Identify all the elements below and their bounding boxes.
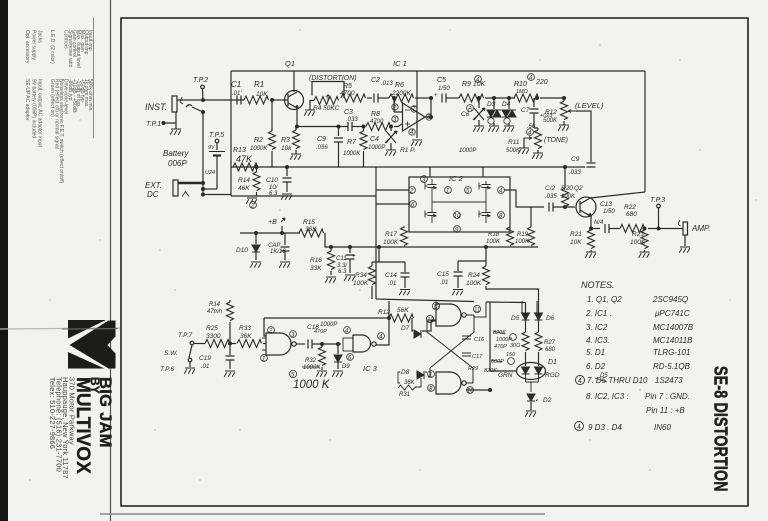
svg-text:2. IC1 .: 2. IC1 . [585, 309, 612, 318]
svg-text:R13: R13 [233, 147, 246, 154]
node junction input [202, 99, 205, 102]
svg-text:T.P.6: T.P.6 [160, 366, 174, 373]
svg-text:C9: C9 [571, 156, 580, 163]
wire: Q1 emitter down [297, 108, 348, 127]
svg-text:EXT.: EXT. [145, 181, 162, 190]
svg-text:Battery: Battery [163, 149, 189, 158]
svg-text:T.P.2: T.P.2 [193, 77, 208, 84]
svg-text:6.3: 6.3 [269, 191, 278, 197]
black scan strip [0, 0, 8, 521]
svg-text:100K: 100K [383, 239, 399, 246]
svg-text:R29: R29 [468, 366, 478, 372]
svg-text:DC: DC [147, 190, 159, 199]
svg-text:R12: R12 [545, 109, 557, 116]
svg-text:1. Q1, Q2: 1. Q1, Q2 [587, 295, 622, 304]
svg-text:R16: R16 [310, 257, 322, 264]
svg-text:4: 4 [578, 378, 582, 385]
IC2 internal wires [432, 179, 486, 209]
svg-text:C17: C17 [472, 354, 483, 360]
svg-text:150: 150 [506, 352, 516, 358]
svg-text:μPC741C: μPC741C [654, 309, 690, 318]
wire: Q1 collector to top [293, 71, 295, 92]
svg-text:R3: R3 [281, 137, 290, 144]
RC cluster between gates [468, 330, 520, 374]
svg-text:D10: D10 [236, 247, 248, 254]
wire: bottom return to box [203, 194, 231, 196]
svg-text:C19: C19 [199, 355, 211, 362]
transistor Q1 [285, 91, 304, 110]
svg-text:C14: C14 [385, 272, 397, 279]
wire: IC1 pin7 feed from top [416, 71, 418, 138]
wire: input line [177, 99, 241, 101]
wire: gate4 out to LED [466, 302, 517, 390]
logo piece chevron [70, 321, 116, 369]
wire: rail B to D5 [486, 302, 526, 313]
svg-text:500K: 500K [543, 118, 558, 124]
svg-text:D1: D1 [548, 359, 557, 366]
SECTION: logo + address [48, 320, 118, 479]
test point T.P.3 [657, 204, 661, 208]
svg-text:7. D5 THRU D10: 7. D5 THRU D10 [587, 376, 648, 385]
SECTION: spec table (rotated) [24, 30, 93, 184]
wire: Q2 emitter to output [591, 216, 600, 229]
svg-text:220: 220 [535, 79, 548, 86]
svg-text:3300: 3300 [206, 333, 221, 340]
svg-text:R32: R32 [305, 358, 317, 364]
svg-text:47K: 47K [236, 154, 253, 164]
svg-text:GRN: GRN [498, 372, 513, 379]
svg-text:.033: .033 [569, 170, 581, 176]
IC2 pin 6 [410, 201, 417, 208]
svg-text:D5: D5 [600, 373, 608, 379]
wire: box A right edge (+B feed) [644, 71, 646, 192]
svg-text:.035: .035 [545, 194, 557, 200]
svg-text:1000K: 1000K [343, 151, 361, 157]
svg-text:+: + [434, 93, 438, 99]
spec table top rule [93, 18, 95, 138]
ground op-amp pin4 [411, 140, 422, 146]
svg-text:A: A [467, 107, 472, 113]
svg-text:NOTES.: NOTES. [581, 280, 615, 290]
svg-text:56K: 56K [397, 307, 409, 314]
svg-text:13: 13 [433, 305, 440, 311]
svg-text:S.W.: S.W. [164, 350, 178, 357]
svg-text:SE-UP AC adaptor: SE-UP AC adaptor [24, 79, 30, 121]
svg-text:R14: R14 [238, 177, 250, 184]
svg-text:INST.: INST. [145, 102, 167, 112]
address lines [48, 377, 77, 479]
svg-text:2: 2 [250, 204, 255, 210]
flip-flop NAND gate IC3c [436, 304, 461, 326]
svg-text:.056: .056 [316, 145, 328, 151]
svg-text:C9: C9 [317, 136, 326, 143]
switch contact from jack sleeve [186, 105, 192, 107]
wire: +B node rail [240, 232, 300, 234]
svg-text:1MΩ: 1MΩ [516, 89, 528, 95]
svg-text:100K: 100K [486, 239, 501, 245]
svg-text:R31: R31 [399, 392, 410, 398]
svg-text:1/50: 1/50 [438, 86, 450, 92]
svg-text:R6: R6 [395, 82, 404, 89]
SECTION: notes + title [575, 280, 732, 492]
svg-text:1000K: 1000K [250, 146, 268, 152]
ground under T.P.1 [170, 129, 181, 135]
svg-text:R1 P.: R1 P. [400, 147, 416, 154]
svg-text:33K: 33K [310, 265, 322, 272]
ext dc jack [173, 180, 178, 196]
scan fold line [0, 328, 120, 329]
wire: flip-flop cross coupling [428, 315, 474, 377]
wire: R24 bottom to D6 [486, 286, 539, 313]
SECTION: schematic [145, 59, 711, 373]
svg-text:Green (effect on): Green (effect on) [49, 79, 55, 117]
wire: C15 sub-rail [458, 247, 486, 261]
svg-text:IC 2: IC 2 [449, 174, 464, 183]
FET IC2c [425, 209, 437, 223]
wire: box A left edge [230, 71, 232, 196]
svg-text:Controls: Controls [63, 30, 69, 49]
svg-text:10K: 10K [570, 239, 582, 246]
sidebar divider line [110, 0, 112, 521]
svg-text:RD-5.1QB: RD-5.1QB [653, 362, 691, 371]
svg-text:10k: 10k [281, 145, 292, 152]
NAND gate IC3b schmitt [343, 338, 353, 351]
wire: op-amp output [425, 98, 431, 117]
svg-text:R7: R7 [347, 139, 357, 146]
resistor R26 820K [522, 332, 529, 351]
wire: left riser to oscillator rail [376, 247, 474, 302]
svg-text:R34: R34 [355, 272, 367, 279]
svg-text:IN60: IN60 [654, 423, 671, 432]
svg-text:C10: C10 [266, 177, 278, 184]
circled 5 note [289, 370, 296, 377]
wire: box A bottom-left rail [231, 195, 376, 197]
wire: ext dc tip thick [178, 182, 203, 184]
svg-text:100K: 100K [353, 280, 369, 287]
svg-text:T.P.7: T.P.7 [178, 332, 192, 339]
svg-text:100K: 100K [515, 239, 530, 245]
svg-text:Power supply: Power supply [31, 30, 37, 61]
svg-text:.01: .01 [388, 281, 396, 287]
svg-text:R4 50KC: R4 50KC [313, 105, 340, 112]
IC2 pin 4 [498, 187, 505, 194]
wire: IC2 pin6 to left rail [376, 203, 409, 205]
wire: rail stubs into IC2 [430, 167, 483, 177]
svg-text:C11: C11 [336, 256, 347, 262]
logo piece top wedge [68, 320, 106, 339]
svg-text:R9 10K: R9 10K [462, 81, 486, 88]
svg-text:36K: 36K [404, 380, 416, 386]
SECTION: schematic bottom (oscillator IC3) [184, 300, 560, 417]
wire: +B rail y167 [231, 166, 585, 168]
FET IC2b [479, 181, 491, 195]
svg-text:006P: 006P [168, 159, 187, 168]
circled 4 marks [576, 376, 585, 385]
svg-text:1S2473: 1S2473 [655, 376, 683, 385]
wire: D5/R27 bottom to lower rail [522, 301, 537, 314]
svg-text:C7: C7 [521, 107, 530, 114]
svg-text:.013: .013 [381, 81, 393, 87]
svg-text:5. D1: 5. D1 [586, 348, 605, 357]
svg-text:R22: R22 [624, 204, 636, 211]
svg-text:1000P: 1000P [459, 148, 476, 154]
svg-text:8. IC2, IC3 :: 8. IC2, IC3 : [586, 392, 629, 401]
svg-text:T.P.3: T.P.3 [650, 197, 665, 204]
svg-text:+B: +B [268, 219, 277, 226]
svg-text:C5: C5 [437, 77, 446, 84]
input jack INST [172, 96, 177, 112]
test point T.P.5 [215, 139, 219, 143]
svg-text:TLRG-101: TLRG-101 [653, 348, 690, 357]
svg-text:U24: U24 [205, 170, 215, 176]
svg-text:1: 1 [262, 357, 265, 363]
outer frame [121, 18, 748, 506]
svg-text:SE-8 DISTORTION: SE-8 DISTORTION [710, 366, 731, 492]
svg-text:R33: R33 [239, 325, 251, 332]
svg-text:R15: R15 [303, 219, 315, 226]
svg-text:4. IC3.: 4. IC3. [586, 336, 610, 345]
battery B1 9V [209, 151, 225, 153]
svg-text:(LEVEL): (LEVEL) [575, 101, 604, 110]
test point T.P.2 [201, 85, 205, 89]
svg-text:C3: C3 [344, 109, 353, 116]
svg-text:680: 680 [545, 347, 556, 353]
wire: rail under IC2 [376, 246, 538, 248]
wire: IC2 pin2 to left rail [376, 189, 409, 191]
svg-text:1000P: 1000P [368, 145, 385, 151]
svg-text:46K: 46K [238, 185, 250, 192]
logo piece bottom wedge [68, 352, 105, 369]
svg-text:R2: R2 [254, 137, 263, 144]
svg-text:9V battery (006P) included: 9V battery (006P) included [31, 79, 37, 138]
svg-text:T.P.5: T.P.5 [209, 132, 224, 139]
wire: IC2 out to C12 [504, 190, 544, 207]
svg-text:C1: C1 [231, 80, 241, 89]
svg-text:C13: C13 [600, 201, 612, 208]
svg-text:C/2: C/2 [545, 185, 556, 192]
svg-text:1K/16: 1K/16 [270, 249, 286, 255]
op-amp U1 IC1 741 [403, 103, 426, 131]
svg-text:AMP.: AMP. [691, 224, 711, 233]
NAND gate IC3a [266, 333, 291, 355]
svg-text:10: 10 [454, 214, 461, 220]
svg-text:MC14011B: MC14011B [653, 336, 693, 345]
svg-text:R21: R21 [570, 231, 582, 238]
svg-text:D7: D7 [401, 325, 410, 332]
svg-text:6.3: 6.3 [338, 269, 347, 275]
FET IC2d [479, 209, 491, 223]
svg-text:C15: C15 [437, 271, 449, 278]
svg-text:Q1: Q1 [285, 59, 295, 68]
IC2 pin 8 [498, 212, 505, 219]
svg-text:30Ω: 30Ω [510, 343, 520, 349]
svg-text:Pin 7 : GND.: Pin 7 : GND. [645, 392, 690, 401]
svg-text:IC 1: IC 1 [393, 59, 407, 68]
svg-text:100K: 100K [466, 280, 482, 287]
svg-text:C4: C4 [370, 136, 379, 143]
svg-text:R17: R17 [385, 231, 397, 238]
svg-text:11: 11 [474, 308, 480, 314]
wire: gate3 out to rail B [474, 302, 486, 317]
svg-text:R27: R27 [544, 340, 556, 346]
svg-text:L.E.D. (2 color): L.E.D. (2 color) [49, 30, 55, 64]
svg-text:D5: D5 [511, 315, 520, 322]
ground under R3 [290, 154, 301, 160]
svg-text:Q2: Q2 [574, 185, 583, 192]
svg-text:680: 680 [626, 211, 637, 218]
svg-text:D2: D2 [543, 397, 552, 404]
svg-text:(TONE): (TONE) [544, 137, 568, 144]
svg-text:R5: R5 [343, 83, 352, 90]
svg-text:N/4: N/4 [594, 220, 604, 226]
ground under SW [184, 368, 195, 374]
svg-text:9 D3 . D4: 9 D3 . D4 [588, 423, 622, 432]
svg-text:6. D2: 6. D2 [586, 362, 606, 371]
wire: main frame of amp box A top [231, 70, 645, 72]
svg-text:R14: R14 [209, 302, 221, 308]
wire: battery return [203, 188, 217, 190]
svg-text:1/50: 1/50 [603, 209, 615, 215]
svg-text:Pin 11 : +B: Pin 11 : +B [646, 406, 685, 415]
svg-text:R18: R18 [488, 232, 500, 238]
svg-text:C16: C16 [474, 337, 485, 343]
wire: feedback to - input [394, 98, 402, 112]
svg-text:R10: R10 [514, 81, 527, 88]
svg-text:470P: 470P [494, 344, 507, 350]
svg-text:2200K: 2200K [391, 90, 411, 97]
svg-text:Opt. accessory: Opt. accessory [24, 30, 30, 64]
Multivox M logo [68, 320, 116, 369]
svg-text:600P: 600P [491, 359, 504, 365]
svg-text:1000K: 1000K [303, 365, 321, 371]
svg-text:Telex: 510-227-9866: Telex: 510-227-9866 [48, 377, 57, 449]
svg-text:IC 3: IC 3 [363, 364, 378, 373]
svg-text:.01: .01 [440, 280, 448, 286]
svg-text:47mh: 47mh [207, 309, 223, 315]
svg-text:D6: D6 [546, 315, 555, 322]
IC2 pin 2 [409, 187, 416, 194]
IC2 pin 3 [421, 176, 428, 183]
svg-text:RGD: RGD [545, 372, 560, 379]
IC2 pin 5 [465, 187, 472, 194]
svg-text:D8: D8 [401, 369, 410, 376]
svg-text:1000P: 1000P [320, 322, 337, 328]
SECTION: schematic middle [233, 147, 690, 313]
FET IC2a [425, 181, 437, 195]
IC2 pin 10 [454, 212, 461, 219]
svg-text:1000 K: 1000 K [293, 379, 331, 391]
bottom scan edge line [100, 513, 545, 515]
svg-text:R1: R1 [254, 80, 264, 89]
IC2 box [409, 177, 510, 232]
svg-text:2: 2 [392, 106, 397, 112]
svg-text:2SC945Q: 2SC945Q [652, 295, 688, 304]
svg-text:T.P.1: T.P.1 [146, 121, 161, 128]
IC2 pin 9 [454, 226, 461, 233]
svg-text:R8: R8 [371, 111, 380, 118]
wire: C14 sub-rail [372, 247, 405, 262]
svg-text:470P: 470P [314, 329, 327, 335]
wire: feedback rail to gate1 input [264, 318, 389, 336]
svg-text:3. IC2: 3. IC2 [586, 323, 608, 332]
svg-text:R11: R11 [508, 139, 520, 146]
output jack AMP [683, 222, 688, 235]
svg-text:.01: .01 [201, 364, 209, 370]
svg-text:D9: D9 [342, 364, 350, 370]
svg-text:1: 1 [446, 189, 449, 195]
svg-text:2: 2 [409, 189, 414, 195]
wire: sw node to rail [194, 343, 206, 345]
svg-text:4: 4 [577, 424, 581, 431]
wire: level wiper to C9 [576, 111, 591, 162]
svg-text:R25: R25 [206, 325, 218, 332]
fold line over logo [62, 328, 118, 330]
IC2 pin 1 [445, 187, 452, 194]
switch S.W. [189, 345, 192, 358]
IC2 supply riser [375, 167, 377, 247]
svg-text:R24: R24 [468, 272, 480, 279]
test point T.P.7 [190, 341, 194, 345]
flip-flop NAND gate IC3d [436, 372, 461, 394]
svg-text:C2: C2 [371, 77, 380, 84]
wire: down to battery/ext rail [202, 112, 204, 195]
svg-text:2: 2 [268, 329, 273, 335]
svg-text:MC14007B: MC14007B [653, 323, 694, 332]
node T.P.1 [162, 122, 165, 125]
wire: Q2 collector to +B edge [590, 192, 645, 198]
